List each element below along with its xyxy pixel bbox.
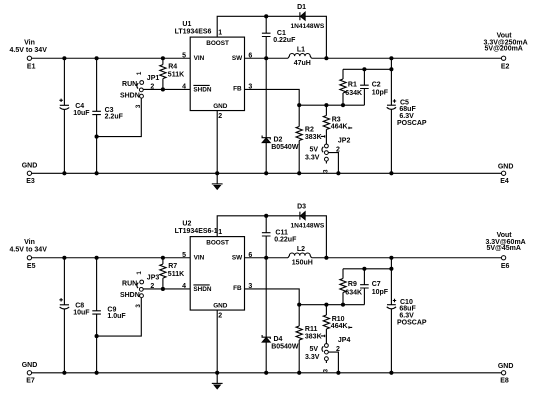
wire JP3 pin3 to C9: [97, 298, 142, 336]
junction GND at JP4: [337, 371, 340, 374]
junction Vout at C5: [390, 57, 393, 60]
svg-text:LT1934ES6: LT1934ES6: [175, 29, 212, 36]
svg-text:C7: C7: [372, 281, 381, 288]
diode D4 B0540W: [262, 258, 299, 373]
svg-text:1: 1: [218, 229, 222, 236]
junction rail at R3: [325, 104, 328, 107]
wire BOOST rail: [217, 16, 300, 37]
svg-text:3: 3: [323, 169, 330, 173]
junction GND at D2: [265, 172, 268, 175]
junction Vout at D1 branch: [325, 57, 328, 60]
svg-text:0.22uF: 0.22uF: [274, 236, 297, 243]
junction Vout at C5: [390, 256, 393, 259]
svg-text:RUN: RUN: [122, 81, 137, 88]
wire Vout line: [312, 257, 502, 259]
junction GND at R2: [298, 172, 301, 175]
junction main vert at rail: [390, 267, 393, 270]
svg-text:C2: C2: [372, 82, 381, 89]
junction rail at R1: [341, 303, 344, 306]
ground: [212, 373, 223, 389]
svg-text:GND: GND: [498, 164, 514, 171]
svg-text:Vin: Vin: [24, 40, 35, 47]
svg-text:L1: L1: [297, 46, 305, 53]
junction top rail at C2: [363, 68, 366, 71]
svg-text:R10: R10: [332, 316, 345, 323]
diode D3 1N4148WS: [291, 204, 325, 230]
wire GND line: [32, 172, 502, 174]
svg-text:BOOST: BOOST: [206, 240, 229, 247]
svg-text:464K: 464K: [331, 124, 348, 131]
pin 2 label: [218, 113, 222, 120]
junction GND at IC gnd: [216, 172, 219, 175]
wire JP4 pin2 to GND: [329, 352, 339, 373]
svg-text:3: 3: [322, 368, 329, 372]
junction rail at R1: [341, 104, 344, 107]
junction SHDN at R4: [161, 88, 164, 91]
diode D2 B0540W: [262, 58, 299, 173]
svg-text:47uH: 47uH: [294, 60, 311, 67]
capacitor C11: [262, 216, 297, 258]
svg-text:1.0uF: 1.0uF: [107, 313, 126, 320]
junction SW at C1/D2: [265, 256, 268, 259]
wire SHDN net: [143, 88, 190, 90]
wire SW segment: [245, 257, 289, 259]
svg-text:5V@200mA: 5V@200mA: [485, 45, 523, 52]
wire FB net: [245, 289, 300, 326]
junction FB divider rail: [298, 303, 301, 306]
junction on Vin at C3: [95, 256, 98, 259]
svg-text:634K: 634K: [345, 289, 362, 296]
wire SHDN net: [143, 288, 190, 290]
svg-text:L2: L2: [297, 246, 305, 253]
node E6 (Vout terminal): [485, 232, 525, 270]
junction on Vin at C3: [95, 57, 98, 60]
svg-text:464K: 464K: [331, 323, 348, 330]
capacitor C5 output: [387, 58, 427, 173]
junction GND at D4: [265, 371, 268, 374]
svg-text:U2: U2: [182, 220, 191, 227]
svg-text:B0540W: B0540W: [271, 144, 299, 151]
inductor L1 47uH: [288, 46, 312, 67]
inductor L2 150uH: [288, 246, 313, 267]
svg-text:4: 4: [182, 283, 186, 290]
svg-text:VIN: VIN: [194, 55, 205, 62]
svg-text:Vout: Vout: [497, 232, 513, 239]
resistor R3: [323, 105, 352, 144]
wire FB net: [245, 89, 300, 126]
svg-text:E3: E3: [26, 178, 35, 185]
svg-text:1N4148WS: 1N4148WS: [291, 23, 325, 30]
wire GND line: [32, 372, 502, 374]
svg-text:SHDN: SHDN: [120, 92, 140, 99]
junction GND at C4: [63, 172, 66, 175]
svg-text:POSCAP: POSCAP: [397, 319, 427, 326]
IC U1 LT1934ES6 regulator: [175, 21, 245, 111]
svg-text:FB: FB: [233, 285, 242, 292]
svg-text:LT1934ES6-1: LT1934ES6-1: [175, 228, 218, 235]
node E8 (GND terminal right): [498, 363, 514, 385]
svg-text:2.2uF: 2.2uF: [105, 114, 124, 121]
resistor R11: [296, 326, 325, 373]
node E3 (GND terminal left): [22, 162, 38, 185]
capacitor C3: [92, 58, 123, 173]
svg-text:1: 1: [136, 271, 143, 275]
svg-text:Vin: Vin: [24, 239, 35, 246]
pin 6 label: [248, 52, 252, 59]
resistor R2: [296, 126, 325, 173]
junction boost rail at C1: [265, 214, 268, 217]
svg-text:U1: U1: [182, 21, 191, 28]
wire Vin line: [32, 57, 191, 59]
pin 4 label: [182, 283, 186, 290]
capacitor C9: [92, 258, 126, 373]
svg-text:5V: 5V: [310, 346, 319, 353]
svg-text:1N4148WS: 1N4148WS: [291, 222, 325, 229]
jumper JP2: [305, 137, 350, 173]
capacitor C1: [262, 16, 296, 58]
svg-text:VIN: VIN: [194, 254, 205, 261]
svg-text:JP3: JP3: [147, 275, 160, 282]
pin 5 label: [182, 252, 186, 259]
junction Vout at D1 branch: [325, 256, 328, 259]
svg-text:GND: GND: [22, 162, 38, 169]
junction on Vin at C4: [63, 256, 66, 259]
svg-text:150uH: 150uH: [292, 260, 313, 267]
wire FB divider rail: [299, 304, 364, 306]
svg-text:E5: E5: [27, 263, 36, 270]
junction GND at C5: [390, 172, 393, 175]
svg-text:634K: 634K: [345, 90, 362, 97]
svg-text:10pF: 10pF: [372, 90, 389, 97]
svg-text:R7: R7: [168, 263, 177, 270]
wire IC GND pin: [216, 310, 218, 373]
pin 3 label: [248, 283, 252, 290]
svg-text:JP2: JP2: [338, 137, 351, 144]
svg-text:E4: E4: [500, 178, 509, 185]
wire BOOST rail: [217, 216, 300, 237]
svg-text:383K: 383K: [305, 333, 322, 340]
svg-text:10pF: 10pF: [372, 289, 389, 296]
pin 5 label: [182, 52, 186, 59]
svg-text:5V@45mA: 5V@45mA: [486, 245, 520, 252]
svg-text:SHDN: SHDN: [193, 286, 211, 293]
resistor R10: [323, 305, 352, 344]
svg-text:D1: D1: [297, 4, 306, 11]
jumper JP3: [120, 271, 159, 308]
svg-text:Vout: Vout: [497, 32, 513, 39]
node E5 (Vin terminal): [10, 239, 48, 270]
svg-text:E2: E2: [501, 64, 510, 71]
svg-text:JP1: JP1: [147, 75, 160, 82]
svg-text:JP4: JP4: [338, 337, 351, 344]
svg-text:2: 2: [218, 312, 222, 319]
svg-text:3: 3: [135, 304, 142, 308]
jumper JP1: [120, 71, 159, 108]
wire SW segment: [245, 57, 289, 59]
ground: [212, 173, 223, 189]
pin 3 label: [248, 83, 252, 90]
svg-text:3.3V: 3.3V: [305, 154, 320, 161]
wire Vin line: [32, 257, 191, 259]
capacitor C10 output: [387, 258, 427, 373]
svg-text:GND: GND: [213, 302, 228, 309]
svg-text:4.5V to 34V: 4.5V to 34V: [10, 246, 48, 253]
junction on Vin at R4: [161, 57, 164, 60]
junction GND at JP2: [337, 172, 340, 175]
svg-text:5: 5: [182, 252, 186, 259]
IC U2 LT1934ES6-1 regulator: [175, 220, 245, 310]
junction C3 / jumper link: [95, 335, 98, 338]
svg-text:4.5V to 34V: 4.5V to 34V: [10, 47, 48, 54]
resistor R7: [160, 258, 184, 289]
wire D1 cathode to Vout node: [305, 16, 326, 58]
svg-text:D3: D3: [297, 204, 306, 211]
svg-text:D4: D4: [274, 336, 283, 343]
junction C3 / jumper link: [95, 135, 98, 138]
svg-text:511K: 511K: [168, 271, 184, 278]
svg-text:R9: R9: [348, 281, 357, 288]
svg-text:BOOST: BOOST: [206, 40, 229, 47]
capacitor C8: [59, 258, 90, 373]
junction boost rail at C1: [265, 15, 268, 18]
pin 2 label: [218, 312, 222, 319]
pin 1 label: [218, 229, 222, 236]
junction top rail at C2: [363, 267, 366, 270]
svg-text:POSCAP: POSCAP: [397, 120, 427, 127]
svg-text:SW: SW: [232, 55, 243, 62]
svg-text:10uF: 10uF: [73, 110, 90, 117]
svg-text:383K: 383K: [305, 134, 322, 141]
resistor R9: [340, 269, 362, 305]
svg-text:1: 1: [218, 29, 222, 36]
junction on Vin at C4: [63, 57, 66, 60]
svg-text:R2: R2: [305, 126, 314, 133]
svg-text:E6: E6: [501, 263, 510, 270]
svg-text:FB: FB: [233, 86, 242, 93]
junction on Vin at R4: [161, 256, 164, 259]
svg-text:GND: GND: [213, 103, 228, 110]
svg-text:3: 3: [135, 104, 142, 108]
junction FB divider rail: [298, 104, 301, 107]
junction SHDN at R4: [161, 287, 164, 290]
svg-text:E7: E7: [26, 378, 35, 385]
svg-text:SHDN: SHDN: [193, 86, 211, 93]
diode D1 1N4148WS: [291, 4, 325, 30]
junction GND at C3: [95, 172, 98, 175]
svg-text:4: 4: [182, 83, 186, 90]
svg-text:0.22uF: 0.22uF: [273, 37, 296, 44]
wire IC GND pin: [216, 111, 218, 174]
wire JP1 pin3 to C3: [97, 98, 142, 136]
capacitor C7: [360, 269, 389, 305]
svg-text:R4: R4: [168, 64, 177, 71]
node E7 (GND terminal left): [22, 362, 38, 385]
junction main vert at rail: [390, 68, 393, 71]
junction rail at R3: [325, 303, 328, 306]
resistor R4: [160, 58, 184, 89]
capacitor C4: [59, 58, 90, 173]
svg-text:GND: GND: [498, 363, 514, 370]
wire R1/C2 top rail: [343, 68, 391, 70]
wire R1/C2 top rail: [343, 268, 391, 270]
node E2 (Vout terminal): [484, 32, 528, 70]
junction GND at IC gnd: [216, 371, 219, 374]
junction GND at R11: [298, 371, 301, 374]
svg-text:SHDN: SHDN: [120, 292, 140, 299]
svg-text:B0540W: B0540W: [271, 344, 299, 351]
svg-text:R11: R11: [305, 326, 318, 333]
svg-text:3.3V: 3.3V: [305, 354, 320, 361]
pin 6 label: [248, 252, 252, 259]
capacitor C2: [360, 69, 389, 105]
svg-text:SW: SW: [232, 254, 243, 261]
wire FB divider rail: [299, 104, 364, 106]
junction GND at C9: [95, 371, 98, 374]
svg-text:1: 1: [136, 71, 143, 75]
svg-text:2: 2: [218, 113, 222, 120]
wire JP2 pin2 to GND: [329, 153, 339, 174]
svg-text:R3: R3: [332, 116, 341, 123]
node E4 (GND terminal right): [498, 164, 514, 186]
pin 1 label: [218, 29, 222, 36]
svg-text:5: 5: [182, 52, 186, 59]
junction SW at C1/D2: [265, 57, 268, 60]
svg-text:GND: GND: [22, 362, 38, 369]
junction GND at C8: [63, 371, 66, 374]
svg-text:5V: 5V: [310, 146, 319, 153]
svg-text:R1: R1: [348, 82, 357, 89]
pin 4 label: [182, 83, 186, 90]
svg-text:RUN: RUN: [122, 281, 137, 288]
jumper JP4: [305, 337, 350, 373]
svg-text:E8: E8: [500, 378, 509, 385]
junction GND at C10: [390, 371, 393, 374]
svg-text:D2: D2: [274, 136, 283, 143]
svg-text:511K: 511K: [168, 72, 184, 79]
svg-text:10uF: 10uF: [73, 309, 90, 316]
resistor R1: [340, 69, 362, 105]
wire D1 cathode to Vout node: [305, 216, 326, 258]
wire Vout line: [312, 57, 502, 59]
svg-text:E1: E1: [27, 63, 36, 70]
node E1 (Vin terminal): [10, 40, 48, 71]
